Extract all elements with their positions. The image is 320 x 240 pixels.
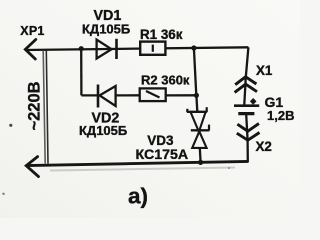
wire VD2 branch from corner bbox=[81, 94, 98, 96]
contact X1 (chevrons) bbox=[235, 77, 257, 93]
node B junction dot bbox=[191, 45, 196, 50]
mains cable double line bbox=[43, 51, 45, 164]
wire top rail bbox=[26, 47, 249, 50]
resistor R1 bbox=[140, 42, 165, 55]
connector XP1 pin 2 (open arrow) bbox=[26, 157, 38, 177]
wire node C down to VD3 bbox=[195, 95, 198, 111]
svg-text:R1 36к: R1 36к bbox=[140, 27, 183, 42]
R1 power mark (1W) bbox=[152, 45, 154, 52]
node D junction dot bbox=[198, 160, 203, 165]
wire bottom rail bbox=[27, 161, 249, 165]
wire VD3 to bottom rail bbox=[199, 148, 202, 162]
wire VD2 to R2 bbox=[116, 94, 140, 96]
wire right rail upper bbox=[244, 47, 248, 104]
svg-text:КС175А: КС175А bbox=[136, 147, 189, 163]
diode VD2 bbox=[98, 85, 116, 108]
node A junction dot bbox=[79, 46, 84, 51]
resistor R2 bbox=[140, 88, 166, 101]
zener VD3 bbox=[187, 107, 209, 148]
svg-text:X2: X2 bbox=[256, 139, 272, 154]
svg-text:1,2В: 1,2В bbox=[267, 108, 294, 123]
wire right rail lower bbox=[246, 115, 248, 163]
connector XP1 pin 1 (open arrow) bbox=[25, 40, 36, 60]
node C junction dot bbox=[194, 93, 199, 98]
svg-text:R2 360к: R2 360к bbox=[141, 73, 190, 88]
svg-text:VD3: VD3 bbox=[147, 133, 174, 148]
svg-text:КД105Б: КД105Б bbox=[79, 123, 127, 138]
svg-text:~220В: ~220В bbox=[25, 81, 43, 130]
polarity diamond bbox=[250, 98, 257, 105]
speckles bbox=[9, 124, 12, 127]
wire node B down to node C bbox=[194, 48, 196, 95]
battery G1 plus plate bbox=[234, 104, 259, 107]
svg-text:а): а) bbox=[128, 184, 148, 209]
wire node A down to VD2 branch bbox=[80, 49, 83, 96]
battery G1 minus plate bbox=[238, 112, 254, 115]
diode VD1 bbox=[97, 39, 117, 59]
R2 power mark (0.25W) bbox=[146, 91, 160, 98]
scan shadow under bottom rail bbox=[50, 168, 235, 171]
contact X2 (chevrons) bbox=[237, 124, 260, 141]
svg-text:X1: X1 bbox=[256, 63, 273, 78]
svg-text:ХР1: ХР1 bbox=[20, 24, 44, 38]
wire R2 to node C bbox=[166, 94, 197, 96]
svg-text:КД105Б: КД105Б bbox=[82, 22, 130, 37]
